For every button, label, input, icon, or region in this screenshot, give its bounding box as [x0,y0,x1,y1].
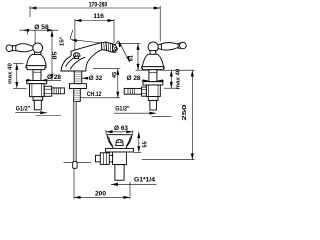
svg-text:max 40: max 40 [176,69,182,90]
svg-text:Ø 32: Ø 32 [89,76,103,82]
svg-text:61: 61 [129,55,135,61]
svg-text:170-280: 170-280 [89,2,108,8]
svg-text:250: 250 [182,105,188,121]
svg-text:85: 85 [52,52,58,60]
svg-text:G1/2": G1/2" [115,107,130,113]
svg-text:G1/2": G1/2" [16,106,31,112]
svg-text:CH.12: CH.12 [87,92,102,98]
svg-text:15°: 15° [60,36,66,46]
svg-text:55: 55 [142,141,148,147]
svg-text:G1*1/4: G1*1/4 [134,178,156,184]
svg-text:max 40: max 40 [8,63,14,84]
svg-text:200: 200 [95,191,107,197]
svg-text:Ø 28: Ø 28 [127,76,142,82]
svg-text:116: 116 [93,14,104,20]
